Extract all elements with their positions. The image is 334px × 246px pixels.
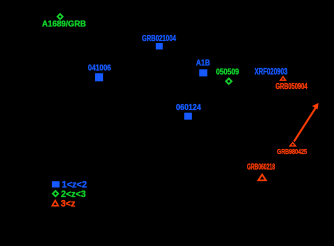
svg-text:GRB980425: GRB980425: [277, 149, 307, 156]
svg-text:A1689/GRB: A1689/GRB: [42, 20, 86, 29]
svg-text:GRB060218: GRB060218: [247, 163, 275, 172]
svg-text:060124: 060124: [176, 103, 202, 112]
svg-text:GRB050904: GRB050904: [276, 82, 308, 91]
svg-text:050509: 050509: [216, 67, 239, 76]
svg-text:XRF020903: XRF020903: [255, 66, 288, 76]
svg-text:041006: 041006: [88, 64, 111, 73]
svg-text:GRB021004: GRB021004: [142, 34, 176, 43]
svg-text:3<z: 3<z: [61, 198, 76, 209]
svg-text:A1B: A1B: [196, 59, 210, 68]
